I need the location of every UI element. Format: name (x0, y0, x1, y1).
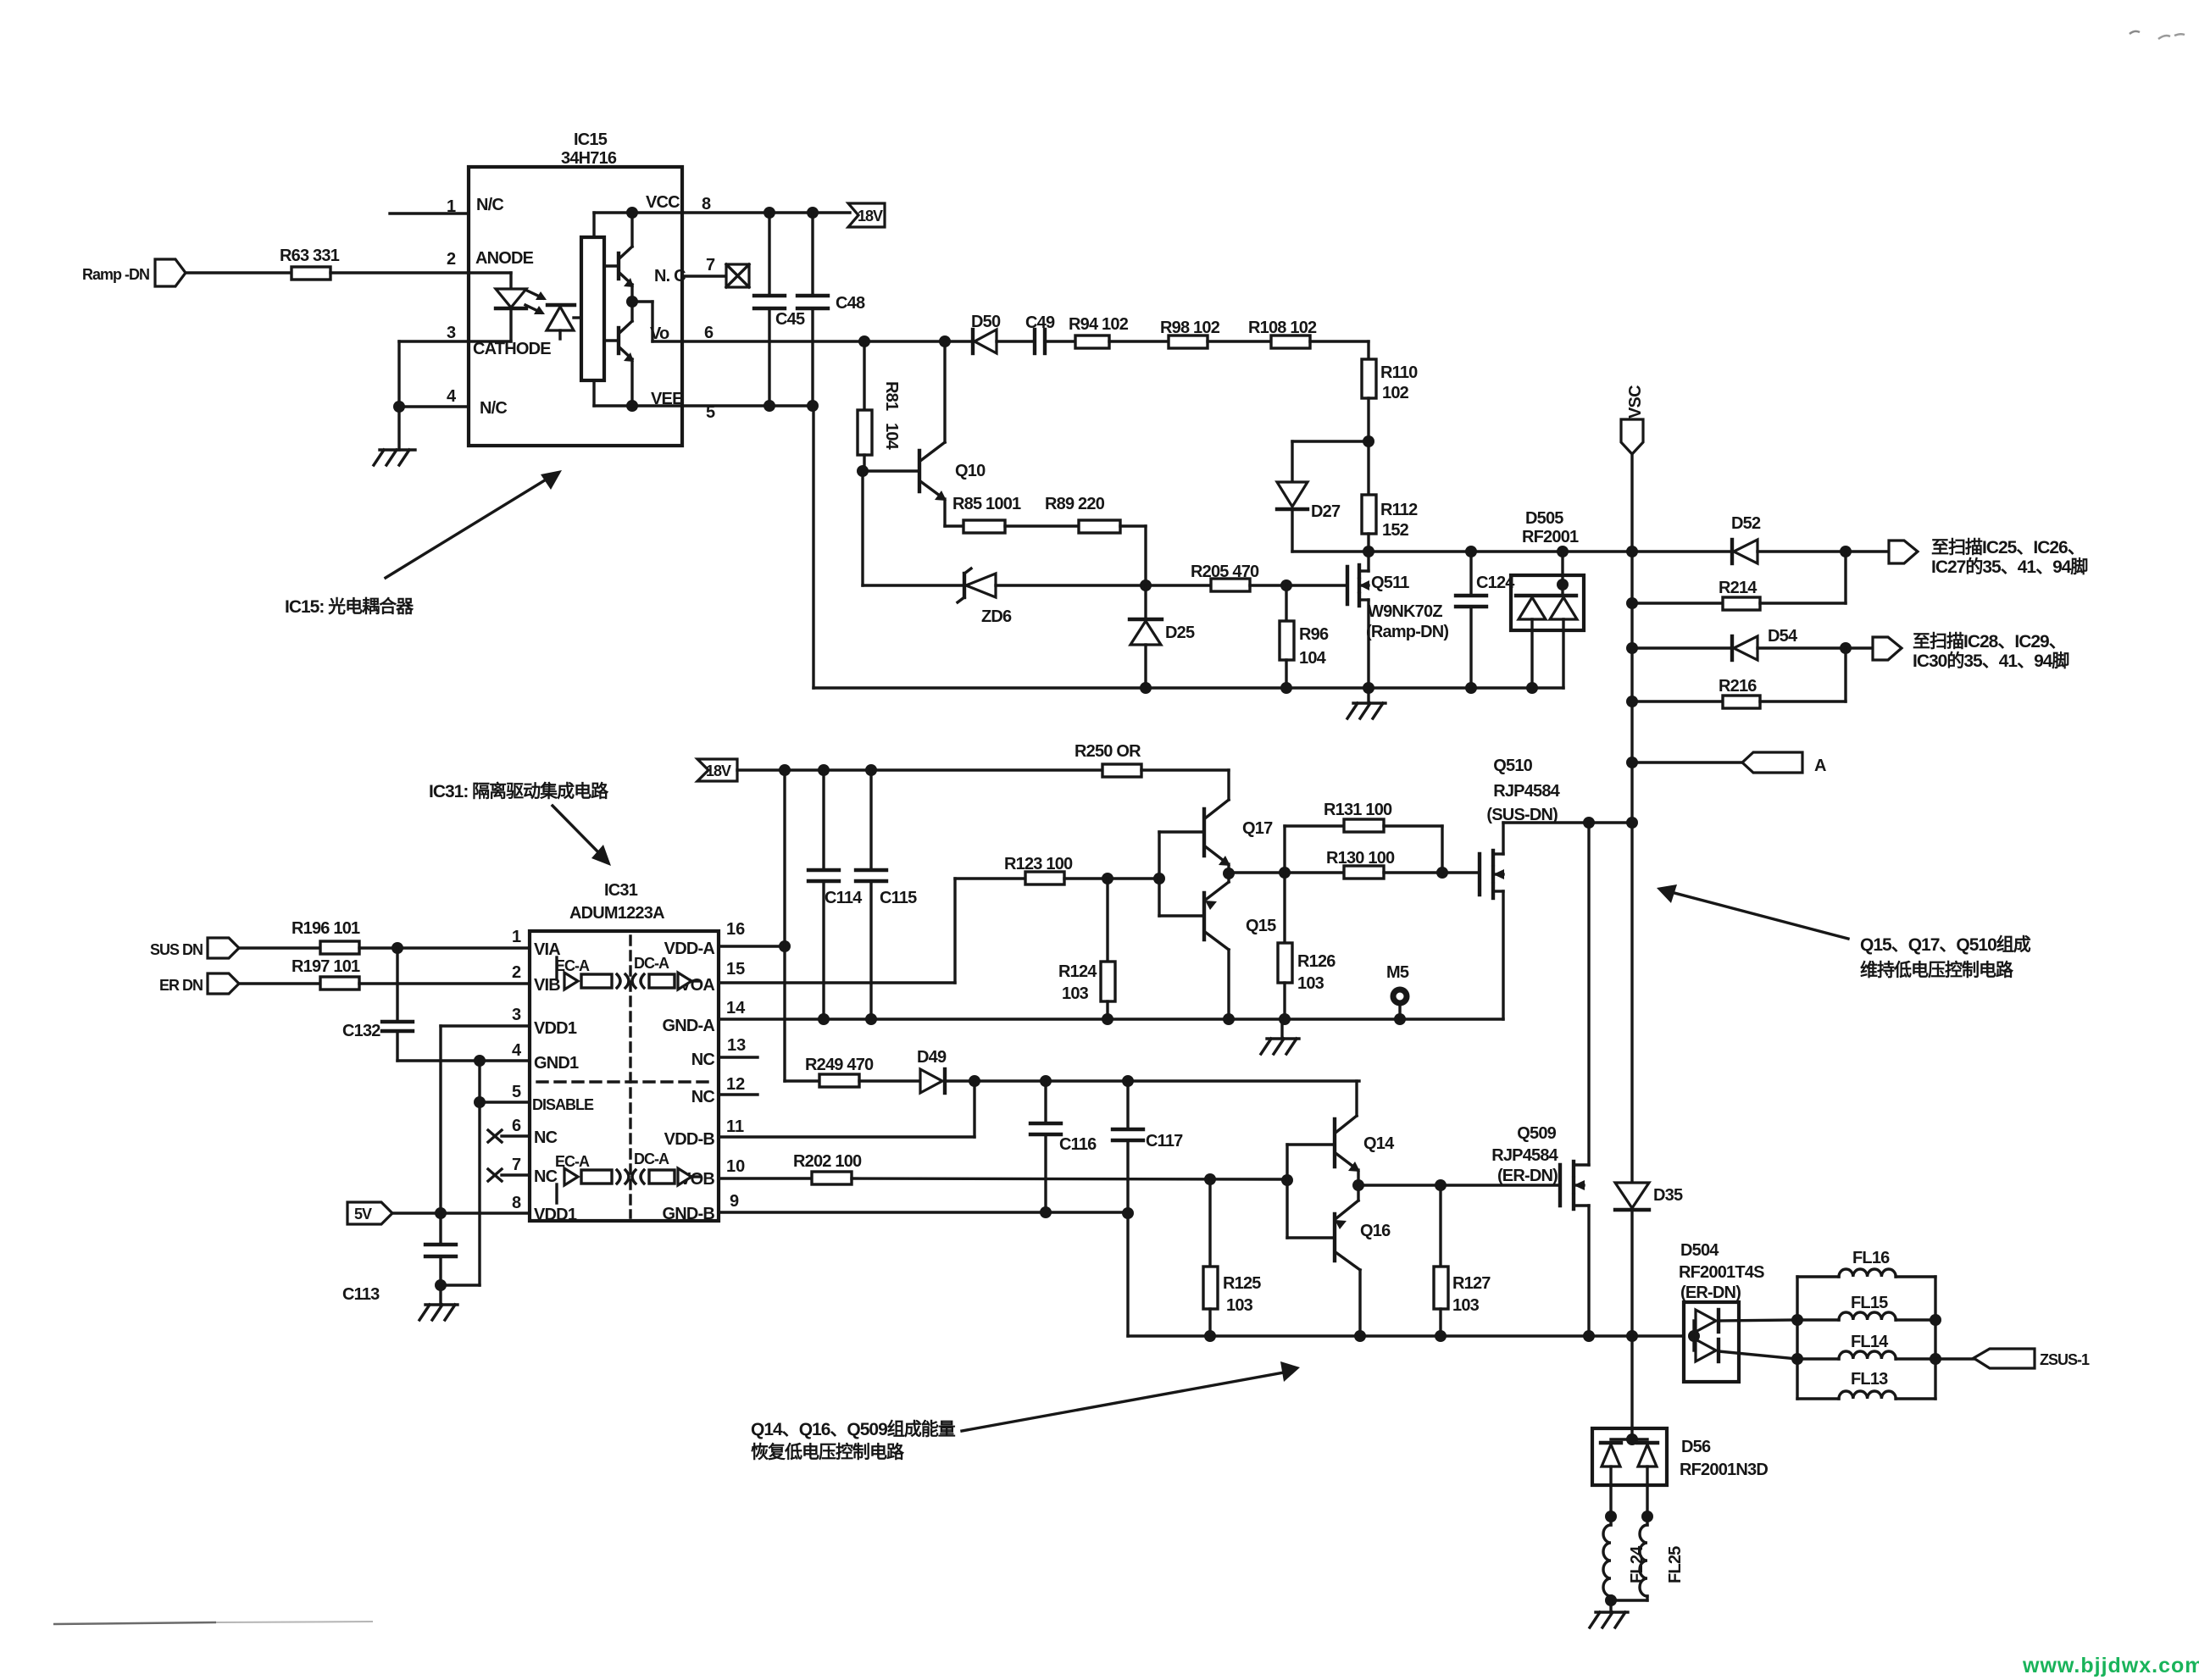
svg-text:4: 4 (447, 387, 457, 406)
dual diode D505 RF2001 (1511, 509, 1584, 688)
svg-text:Q16: Q16 (1360, 1222, 1391, 1240)
svg-text:R216: R216 (1719, 677, 1757, 696)
svg-text:R124: R124 (1058, 962, 1097, 981)
pin7 NC stub with x (488, 1156, 530, 1181)
svg-text:M5: M5 (1386, 963, 1409, 982)
svg-text:SUS DN: SUS DN (150, 941, 203, 958)
scan artifact line bottom left (53, 1622, 373, 1624)
resistor R202 100 (793, 1152, 862, 1184)
IC31 channel A DC-A block (632, 955, 699, 990)
svg-text:C116: C116 (1059, 1135, 1097, 1154)
wire C49 to R94 (1045, 340, 1075, 342)
wire Q14/Q16 base vertical (1286, 1145, 1288, 1238)
annotation Q14 Q16 Q509 text (751, 1419, 956, 1462)
IC31 pin names left (532, 940, 594, 1224)
svg-text:9: 9 (730, 1192, 739, 1211)
annotation arrow to IC31 (553, 806, 611, 866)
svg-text:2: 2 (512, 963, 521, 982)
wire Ramp-DN to R63 (186, 271, 292, 274)
pin13 NC stub (719, 1056, 758, 1058)
diode D35 (1615, 823, 1683, 1336)
resistor R126 103 vertical (1278, 873, 1336, 1019)
ground vertical from GND1 (474, 1061, 486, 1285)
svg-text:VDD1: VDD1 (534, 1206, 577, 1224)
svg-text:DISABLE: DISABLE (532, 1096, 594, 1113)
dual diode D56 RF2001N3D (1592, 1336, 1768, 1516)
transistor Q17 (1159, 800, 1273, 873)
wire R123 to Q17/Q15 bases (1064, 873, 1165, 884)
resistor R250 0R (1075, 742, 1141, 777)
capacitor C113 (342, 1213, 456, 1304)
wire Q10 base down to ZD6 line (863, 471, 964, 585)
test point M5 (1386, 963, 1409, 1019)
svg-text:W9NK70Z: W9NK70Z (1368, 602, 1442, 621)
wire Q17/Q15 base vertical (1158, 832, 1160, 916)
zener ZD6 (958, 568, 1012, 626)
wire R196 to pin1 (359, 928, 530, 954)
connector to scan row2 (1873, 637, 1902, 660)
wire pin5 VEE (682, 400, 819, 412)
svg-text:FL13: FL13 (1851, 1370, 1888, 1389)
IC31 internal dashed divider horizontal (537, 1080, 715, 1083)
wire 18V rail (737, 764, 1102, 776)
svg-text:152: 152 (1382, 521, 1409, 540)
node ZSUS-1 connector (1935, 1349, 2090, 1368)
svg-text:C114: C114 (825, 889, 863, 907)
pin7 N.C stub with X box (682, 264, 749, 287)
svg-text:C45: C45 (775, 310, 805, 329)
wire R112 bottom (1367, 534, 1369, 552)
svg-text:NC: NC (534, 1167, 558, 1186)
svg-text:DC-A: DC-A (634, 955, 669, 972)
svg-text:R94 102: R94 102 (1069, 315, 1129, 334)
IC31 box (530, 931, 719, 1221)
svg-text:NC: NC (691, 1051, 715, 1069)
svg-text:R202 100: R202 100 (793, 1152, 862, 1171)
svg-text:至扫描IC28、IC29、: 至扫描IC28、IC29、 (1913, 632, 2066, 651)
svg-text:16: 16 (726, 920, 745, 939)
svg-text:DC-A: DC-A (634, 1150, 669, 1167)
capacitor C114 (808, 770, 863, 1019)
svg-text:GND-B: GND-B (662, 1205, 714, 1223)
VEE internal wire (594, 380, 682, 406)
svg-text:R214: R214 (1719, 579, 1758, 597)
FL filter frame left rail (1791, 1277, 1803, 1399)
wire D49 node (945, 1075, 1359, 1087)
GND-A rail (719, 1013, 1503, 1025)
VSC bus upper (1626, 454, 1638, 823)
wire D50 to C49 (997, 340, 1033, 342)
svg-text:C117: C117 (1146, 1132, 1183, 1150)
wire VOB through R202 (719, 1177, 812, 1179)
svg-text:GND-A: GND-A (662, 1017, 714, 1035)
svg-text:13: 13 (727, 1036, 746, 1055)
svg-text:10: 10 (726, 1157, 745, 1176)
annotation IC31 text (429, 781, 609, 801)
transistor Q15 (1159, 873, 1276, 1019)
svg-text:15: 15 (726, 960, 745, 979)
svg-text:VDD-B: VDD-B (664, 1130, 715, 1149)
svg-text:IC15: 光电耦合器: IC15: 光电耦合器 (285, 596, 414, 617)
diode D50 (971, 313, 1001, 353)
svg-text:103: 103 (1226, 1296, 1253, 1315)
svg-text:EC-A: EC-A (555, 1153, 590, 1170)
svg-text:IC30的35、41、94脚: IC30的35、41、94脚 (1913, 651, 2069, 671)
wire node 651 horizontal (1292, 546, 1732, 557)
resistor R63 331 (280, 247, 340, 280)
svg-text:D504: D504 (1680, 1241, 1719, 1260)
svg-text:A: A (1814, 757, 1826, 775)
IC31 internal dashed divider vertical (629, 936, 631, 1217)
svg-text:Q10: Q10 (955, 462, 986, 480)
bottom rail of Ramp-DN stage (814, 682, 1563, 694)
resistor R96 104 vertical (1280, 585, 1329, 688)
svg-text:7: 7 (512, 1156, 521, 1174)
svg-text:ER DN: ER DN (159, 977, 203, 994)
svg-text:R81: R81 (882, 381, 901, 411)
wire D54 to connector (1758, 642, 1873, 654)
svg-text:NC: NC (691, 1088, 715, 1106)
svg-text:N/C: N/C (476, 196, 503, 214)
svg-text:至扫描IC25、IC26、: 至扫描IC25、IC26、 (1931, 538, 2085, 557)
svg-text:6: 6 (512, 1117, 521, 1135)
svg-text:3: 3 (512, 1006, 521, 1024)
svg-text:C48: C48 (836, 294, 865, 313)
wire R85 to R89 (1005, 524, 1079, 527)
transistor Q10 (857, 341, 986, 526)
resistor R131 100 parallel (1285, 801, 1442, 873)
wire GND-B pin9 (719, 1206, 1134, 1219)
MOSFET Q510 RJP4584 (1480, 757, 1561, 1019)
svg-text:RF2001T4S: RF2001T4S (1679, 1263, 1764, 1282)
wire pin4 GND1 (397, 1041, 530, 1067)
IC31 channel B DC-A block (632, 1150, 699, 1185)
inductor FL14 (1797, 1333, 1935, 1359)
svg-text:Ramp -DN: Ramp -DN (82, 266, 149, 283)
svg-text:www.bjjdwx.com: www.bjjdwx.com (2022, 1654, 2199, 1677)
IC15 box (469, 167, 682, 446)
svg-text:Q14、Q16、Q509组成能量: Q14、Q16、Q509组成能量 (751, 1419, 956, 1439)
diode D52 (1731, 514, 1761, 563)
svg-text:IC15: IC15 (574, 130, 608, 149)
ground below FL24 (1590, 1600, 1628, 1627)
svg-text:ADUM1223A: ADUM1223A (569, 904, 664, 923)
pin6 NC stub with x (488, 1117, 530, 1142)
resistor R249 470 (805, 1056, 874, 1087)
svg-text:R131 100: R131 100 (1324, 801, 1392, 819)
resistor R98 102 (1160, 319, 1220, 348)
ground at IC15 pin4 (374, 407, 415, 465)
pin12 NC stub (719, 1093, 758, 1095)
svg-text:R127: R127 (1452, 1274, 1491, 1293)
resistor R124 103 vertical (1058, 879, 1115, 1019)
svg-text:D35: D35 (1653, 1186, 1683, 1205)
svg-text:8: 8 (702, 195, 711, 213)
svg-text:恢复低电压控制电路: 恢复低电压控制电路 (751, 1442, 905, 1462)
svg-text:RJP4584: RJP4584 (1491, 1146, 1558, 1165)
annotation arrow to IC15 (386, 470, 562, 578)
resistor R214 (1632, 552, 1846, 610)
svg-text:IC27的35、41、94脚: IC27的35、41、94脚 (1931, 557, 2087, 577)
pin 4 wire N/C (393, 387, 469, 413)
resistor R125 103 vertical (1203, 1179, 1261, 1336)
wire R250 to Q17 collector (1141, 770, 1229, 800)
wire pin8 VCC to 18V (682, 207, 850, 219)
capacitor C45 (754, 213, 805, 406)
wire ZD6 to R205 (996, 579, 1211, 591)
svg-text:R89 220: R89 220 (1045, 495, 1105, 513)
inductor FL16 (1797, 1249, 1935, 1277)
svg-text:VDD-A: VDD-A (664, 940, 715, 958)
svg-text:18V: 18V (858, 208, 883, 225)
svg-text:FL14: FL14 (1851, 1333, 1889, 1351)
FL filter frame right rail (1930, 1277, 1941, 1399)
capacitor C116 (1030, 1081, 1097, 1212)
resistor R205 470 (1191, 563, 1259, 591)
resistor R196 101 (292, 919, 360, 954)
IC31 channel B EC-A block (555, 1153, 629, 1203)
svg-text:(ER-DN): (ER-DN) (1680, 1284, 1741, 1302)
svg-text:RF2001N3D: RF2001N3D (1680, 1461, 1768, 1479)
IC15 title (561, 130, 617, 168)
svg-text:18V: 18V (706, 762, 731, 779)
IC31 title (569, 881, 664, 923)
ground below Q511 source (1347, 682, 1385, 718)
resistor R85 1001 (952, 495, 1021, 533)
resistor R94 102 (1069, 315, 1129, 348)
svg-text:VSC: VSC (1626, 385, 1645, 419)
svg-text:D56: D56 (1681, 1438, 1711, 1456)
svg-text:8: 8 (512, 1194, 521, 1212)
pin 3 wire CATHODE (399, 324, 511, 407)
light arrows (525, 291, 547, 314)
svg-text:C115: C115 (880, 889, 917, 907)
inductor FL24 vertical (1603, 1511, 1646, 1600)
resistor R89 220 (1045, 495, 1120, 533)
svg-text:7: 7 (706, 256, 715, 274)
wire R108 corner to R110 (1310, 341, 1369, 359)
IC31 channel A EC-A block (555, 957, 629, 990)
svg-text:IC31: IC31 (604, 881, 638, 900)
svg-text:R126: R126 (1297, 952, 1336, 971)
svg-text:N/C: N/C (480, 399, 507, 418)
VCC internal wire (594, 207, 682, 237)
capacitor C132 (342, 948, 413, 1061)
capacitor C115 (856, 770, 917, 1019)
svg-text:3: 3 (447, 324, 456, 342)
svg-text:D505: D505 (1525, 509, 1563, 528)
svg-text:R110: R110 (1380, 363, 1418, 382)
node ER DN connector (159, 973, 239, 994)
wire VEE down to bottom rail (812, 406, 814, 688)
wire D49 node down to VDD-B pin11 (719, 1081, 975, 1137)
node SUS DN connector (150, 938, 239, 958)
MOSFET Q511 W9NK70Z (1347, 552, 1448, 688)
wire R249 to D49 (859, 1079, 920, 1082)
svg-text:D27: D27 (1311, 502, 1341, 521)
resistor R130 100 (1326, 849, 1395, 879)
scan specks top right (2130, 31, 2185, 39)
node Ramp-DN connector (82, 259, 186, 286)
svg-text:Q15、Q17、Q510组成: Q15、Q17、Q510组成 (1860, 934, 2031, 955)
VSC flag (1621, 385, 1645, 454)
svg-text:D49: D49 (917, 1048, 947, 1067)
pin 1 stub N/C (390, 197, 469, 216)
wire GND1 column to C113 foot (435, 1279, 480, 1291)
svg-text:NC: NC (534, 1128, 558, 1147)
svg-text:D52: D52 (1731, 514, 1761, 533)
inductor FL25 vertical (1640, 1511, 1685, 1600)
resistor R197 101 (292, 957, 360, 990)
svg-text:R96: R96 (1299, 625, 1329, 644)
resistor R123 100 (1004, 855, 1073, 884)
svg-text:(Ramp-DN): (Ramp-DN) (1366, 623, 1448, 641)
svg-text:C49: C49 (1025, 313, 1055, 332)
svg-text:6: 6 (704, 324, 714, 342)
power flag 18V lower (697, 759, 737, 781)
wire R205 to Q511 gate (1250, 579, 1347, 591)
svg-text:维持低电压控制电路: 维持低电压控制电路 (1860, 960, 2014, 980)
svg-text:EC-A: EC-A (555, 957, 590, 974)
svg-text:4: 4 (512, 1041, 522, 1060)
resistor R127 103 vertical (1434, 1185, 1491, 1336)
dual diode D504 RF2001T4S (1679, 1241, 1797, 1382)
resistor R108 102 (1248, 319, 1317, 348)
svg-text:1: 1 (512, 928, 521, 946)
svg-text:104: 104 (1299, 649, 1327, 668)
svg-text:R112: R112 (1380, 501, 1418, 519)
resistor R81 104 vertical (858, 341, 901, 471)
wire R197 to pin2 (359, 963, 530, 984)
wire R98 to R108 (1208, 340, 1271, 342)
wire pin16 VDD-A to 18V drop (719, 940, 791, 952)
annotation IC15 text (285, 596, 414, 617)
svg-text:11: 11 (726, 1117, 744, 1136)
resistor R216 (1632, 648, 1846, 708)
transistor upper darlington (604, 213, 638, 308)
capacitor C124 (1456, 552, 1515, 688)
svg-text:R249 470: R249 470 (805, 1056, 874, 1074)
annotation Q15 Q17 Q510 text (1860, 934, 2031, 980)
power flag 5V (347, 1202, 392, 1224)
wire Q510 drain to VSC bus (1503, 817, 1638, 829)
svg-text:12: 12 (726, 1075, 745, 1094)
photodiode inside IC15 (547, 305, 581, 339)
bottom rail ER-DN stage (1128, 1330, 1684, 1342)
node A connector (1632, 752, 1826, 775)
svg-text:FL25: FL25 (1666, 1546, 1685, 1583)
diode D25 (1130, 585, 1195, 688)
note to-scan text 1 (1931, 538, 2087, 577)
wire VOA to R123 (719, 879, 1025, 983)
wire pin3 VDD1 (441, 1006, 530, 1213)
pin 2 label (447, 250, 456, 269)
transistor Q14 (1287, 1081, 1395, 1185)
svg-text:5V: 5V (354, 1206, 372, 1223)
IC15 pin names right (646, 193, 686, 408)
transistor lower darlington (604, 302, 638, 412)
svg-text:FL15: FL15 (1851, 1294, 1888, 1312)
annotation arrow to Q510 area (1657, 884, 1848, 939)
capacitor C48 (797, 213, 865, 406)
wire R130 to Q510 gate (1384, 867, 1480, 879)
svg-text:RF2001: RF2001 (1522, 528, 1579, 546)
svg-text:5: 5 (512, 1083, 521, 1101)
note to-scan text 2 (1913, 632, 2069, 671)
svg-text:2: 2 (447, 250, 456, 269)
connector to scan row1 (1889, 541, 1918, 563)
wire R202 to Q14/Q16 bases (852, 1173, 1293, 1186)
svg-text:GND1: GND1 (534, 1054, 579, 1073)
wire emitter node to Q509 gate (1352, 1179, 1560, 1191)
svg-text:R197 101: R197 101 (292, 957, 360, 976)
svg-text:D25: D25 (1165, 624, 1195, 642)
svg-text:R196 101: R196 101 (292, 919, 360, 938)
wire R94 to R98 (1109, 340, 1169, 342)
inductor FL13 (1797, 1370, 1935, 1399)
svg-text:Q510: Q510 (1493, 757, 1532, 775)
svg-text:FL16: FL16 (1852, 1249, 1890, 1267)
IC31 pin numbers right (726, 920, 746, 1211)
wire R63 to IC15 pin 2 (330, 271, 469, 274)
svg-text:C132: C132 (342, 1022, 380, 1040)
svg-text:IC31: 隔离驱动集成电路: IC31: 隔离驱动集成电路 (429, 781, 609, 801)
svg-text:ANODE: ANODE (475, 249, 534, 268)
svg-text:Q509: Q509 (1517, 1124, 1556, 1143)
ground below GND-A rail (1261, 1019, 1299, 1054)
svg-text:Q511: Q511 (1371, 574, 1409, 592)
svg-text:Q15: Q15 (1246, 917, 1276, 935)
wire R110 to R112 (1363, 398, 1374, 495)
wire pin5 DISABLE (480, 1083, 530, 1102)
wire ER DN to R197 (239, 982, 320, 984)
svg-text:R85 1001: R85 1001 (952, 495, 1021, 513)
svg-text:102: 102 (1382, 384, 1409, 402)
svg-text:R63 331: R63 331 (280, 247, 340, 265)
pin numbers right of IC15 (702, 195, 715, 422)
svg-text:RJP4584: RJP4584 (1493, 782, 1560, 801)
svg-text:VDD1: VDD1 (534, 1019, 577, 1038)
wire FL24/FL25 bottom tie (1605, 1594, 1647, 1606)
MOSFET Q509 RJP4584 (1491, 823, 1589, 1336)
svg-text:103: 103 (1452, 1296, 1480, 1315)
svg-text:(ER-DN): (ER-DN) (1497, 1167, 1558, 1185)
ground below C113 (419, 1285, 458, 1320)
inductor FL15 (1797, 1294, 1935, 1320)
base region bar inside IC15 (581, 237, 604, 380)
svg-text:103: 103 (1062, 984, 1089, 1003)
svg-text:103: 103 (1297, 974, 1324, 993)
annotation arrow to ER-DN stage (962, 1361, 1300, 1431)
wire SUS DN to R196 (239, 946, 320, 949)
Vo internal wire (632, 302, 682, 341)
diode D49 (917, 1048, 947, 1093)
LED inside IC15 (469, 273, 526, 341)
svg-text:104: 104 (882, 423, 901, 451)
svg-text:R125: R125 (1223, 1274, 1261, 1293)
diode D27 branch (1277, 441, 1369, 552)
wire Vo (682, 335, 973, 347)
wire emitter node to R130 (1223, 867, 1344, 879)
resistor R112 152 vertical (1362, 495, 1418, 540)
resistor R110 102 vertical (1362, 359, 1418, 402)
diode D54 (1632, 627, 1798, 660)
wire Q10 emitter to R85 (945, 524, 963, 527)
IC31 pin names right (662, 940, 714, 1223)
svg-text:ZSUS-1: ZSUS-1 (2040, 1351, 2090, 1368)
svg-text:ZD6: ZD6 (981, 607, 1012, 626)
wire 18V down to R249 (785, 770, 819, 1081)
